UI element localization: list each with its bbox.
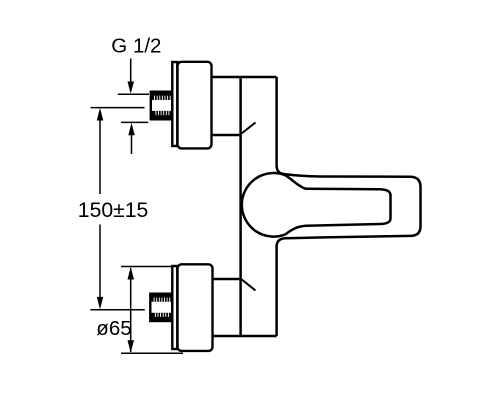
svg-text:150±15: 150±15	[78, 199, 149, 222]
svg-text:G 1/2: G 1/2	[111, 34, 161, 57]
svg-text:ø65: ø65	[96, 317, 131, 340]
